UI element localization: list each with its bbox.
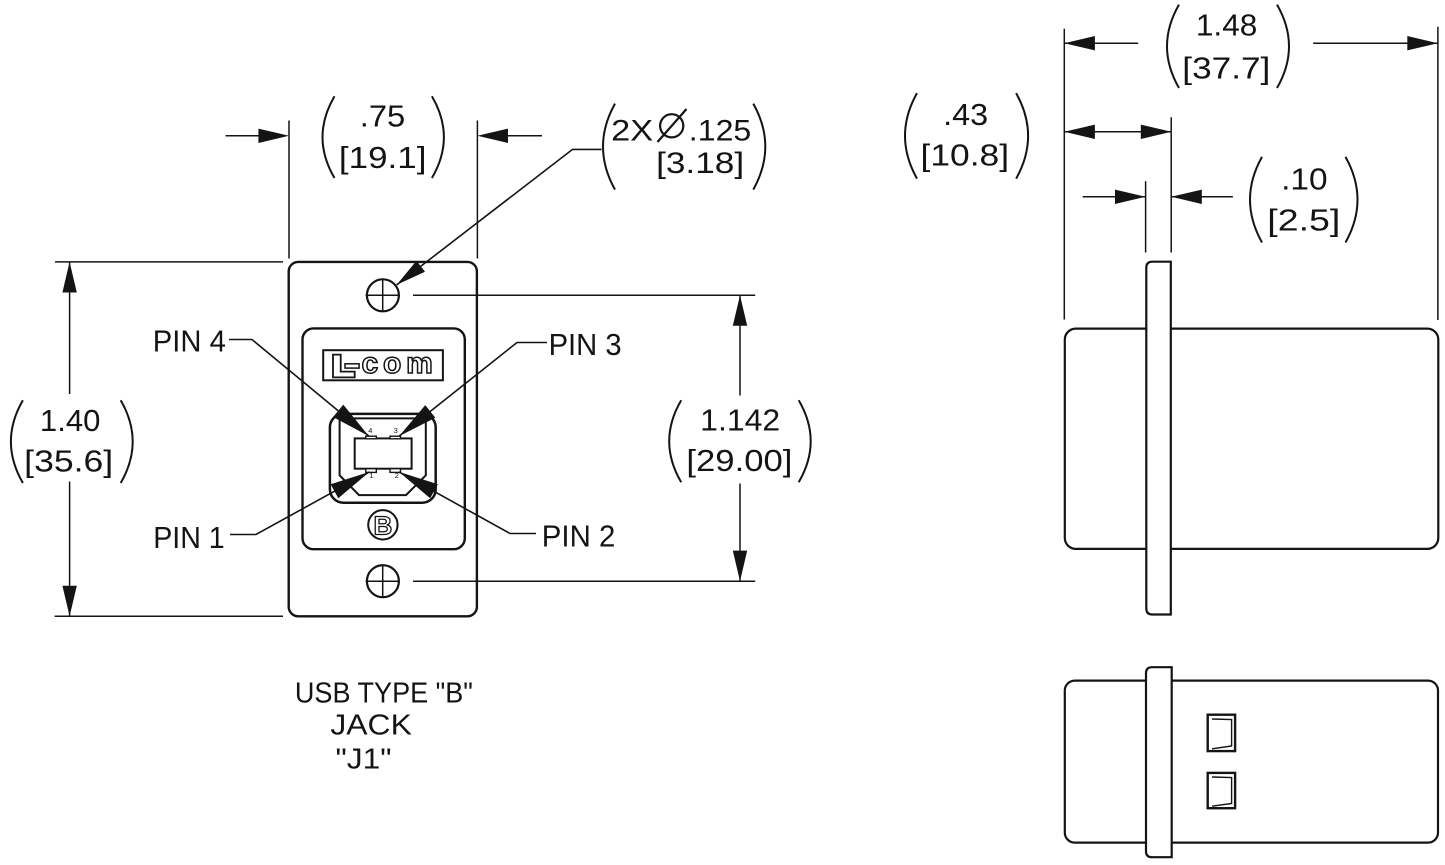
pin 1 number (369, 471, 373, 480)
top mounting hole (366, 279, 400, 312)
svg-text:1.48: 1.48 (1196, 8, 1258, 43)
hole callout text (611, 114, 751, 180)
dim 1.40 text (24, 403, 113, 479)
PIN 1 leader (230, 472, 370, 535)
PIN 3 leader (399, 343, 547, 437)
svg-text:JACK: JACK (330, 710, 412, 742)
title line 2 (330, 710, 412, 742)
latch window lower (1208, 773, 1235, 808)
pin 4 contact (366, 436, 377, 439)
pin 3 contact (390, 436, 401, 439)
svg-text:[19.1]: [19.1] (339, 140, 427, 175)
svg-text:PIN 4: PIN 4 (153, 324, 226, 359)
PIN 4 leader (229, 340, 369, 437)
dim 1.48 parens (1167, 5, 1289, 88)
svg-text:PIN 2: PIN 2 (542, 518, 616, 553)
dim 1.40 top extension line (55, 261, 283, 263)
svg-text:[2.5]: [2.5] (1267, 203, 1340, 238)
dim 1.48 right extension line (1437, 27, 1439, 320)
svg-text:1.142: 1.142 (700, 403, 780, 438)
hole callout diameter symbol (658, 109, 687, 142)
svg-text:2: 2 (395, 471, 399, 480)
svg-text:[37.7]: [37.7] (1182, 50, 1270, 85)
dim 1.142 top reference line (413, 294, 755, 296)
title line 1 (295, 678, 473, 710)
side view body (1065, 329, 1439, 549)
USB B receptacle outline (chamfered) (340, 418, 426, 495)
PIN 3 label (549, 327, 622, 362)
svg-text:[10.8]: [10.8] (921, 138, 1010, 173)
B symbol circle (368, 510, 397, 539)
svg-text:4: 4 (368, 426, 372, 435)
svg-text:2X: 2X (611, 114, 653, 147)
dim .10 right extension line (1170, 117, 1172, 252)
pin 4 number (368, 426, 372, 435)
plug view body (1065, 681, 1438, 843)
bottom mounting hole (366, 565, 400, 598)
PIN 1 label (153, 520, 225, 555)
L-com logo L glyph (333, 355, 355, 378)
svg-text:USB TYPE "B": USB TYPE "B" (295, 678, 473, 710)
dim .75 right extension line (476, 121, 478, 259)
L-com logo dash (345, 364, 359, 368)
dim 1.48 left arrow (1064, 36, 1138, 50)
dim .10 parens (1250, 157, 1358, 243)
pin 2 contact (390, 469, 401, 473)
dim .75 left arrow (226, 129, 290, 143)
dim 1.40 parens (11, 400, 133, 483)
svg-text:[3.18]: [3.18] (656, 147, 744, 180)
pin 2 number (395, 471, 399, 480)
dim .10 left extension line (1145, 181, 1147, 252)
L-com logo com text (362, 347, 438, 380)
pin 3 number (394, 426, 398, 435)
dim 1.40 bottom extension line (55, 615, 283, 617)
dim .43 line (1064, 125, 1171, 139)
dim .10 text (1267, 162, 1340, 238)
dim .75 parens (323, 96, 444, 178)
dim .43 text (921, 97, 1010, 173)
dim 1.142 text (686, 403, 792, 479)
plug view flange (1146, 667, 1172, 857)
latch window upper (1208, 715, 1235, 751)
svg-text:.43: .43 (943, 97, 988, 132)
dim 1.48 right arrow (1313, 36, 1438, 50)
side view flange (1146, 262, 1171, 615)
dim .10 right arrow (1171, 190, 1233, 204)
dim .10 left arrow (1083, 190, 1146, 204)
L-com logo box (323, 350, 443, 380)
svg-text:1.40: 1.40 (40, 403, 101, 438)
svg-text:[35.6]: [35.6] (24, 444, 113, 479)
svg-text:com: com (362, 347, 438, 380)
dim .75 right arrow (477, 129, 542, 143)
svg-text:.75: .75 (360, 99, 406, 134)
svg-text:.10: .10 (1281, 162, 1328, 197)
dim .75 left extension line (288, 121, 290, 259)
svg-text:PIN 1: PIN 1 (153, 520, 225, 555)
svg-text:"J1": "J1" (336, 744, 392, 776)
jack body outline (inner rounded rectangle) (303, 328, 465, 549)
B symbol letter (374, 510, 393, 540)
dim 1.48 left extension line (1063, 29, 1065, 320)
dim 1.142 line upper (733, 295, 747, 395)
panel plate outline (289, 262, 477, 616)
dim 1.40 line lower (62, 482, 76, 617)
svg-text:[29.00]: [29.00] (686, 443, 792, 478)
dim 1.40 line upper (62, 262, 76, 394)
svg-text:PIN 3: PIN 3 (549, 327, 622, 362)
hole callout leader (397, 149, 602, 285)
dim 1.142 parens (669, 400, 811, 482)
USB B shell (rounded square) (330, 414, 436, 503)
PIN 2 label (542, 518, 616, 553)
dim .43 parens (905, 93, 1028, 179)
svg-text:.125: .125 (689, 114, 752, 147)
svg-text:B: B (374, 510, 393, 540)
hole callout parens (603, 104, 765, 190)
pin 1 contact (366, 469, 377, 473)
dim 1.142 line lower (733, 484, 747, 582)
PIN 4 label (153, 324, 226, 359)
PIN 2 leader (399, 472, 536, 534)
title line 3 (336, 744, 392, 776)
dim .75 text (339, 99, 427, 175)
USB B tongue (355, 438, 412, 468)
dim 1.142 bottom reference line (413, 580, 755, 582)
svg-text:3: 3 (394, 426, 398, 435)
svg-text:1: 1 (369, 471, 373, 480)
dim 1.48 text (1182, 8, 1270, 86)
